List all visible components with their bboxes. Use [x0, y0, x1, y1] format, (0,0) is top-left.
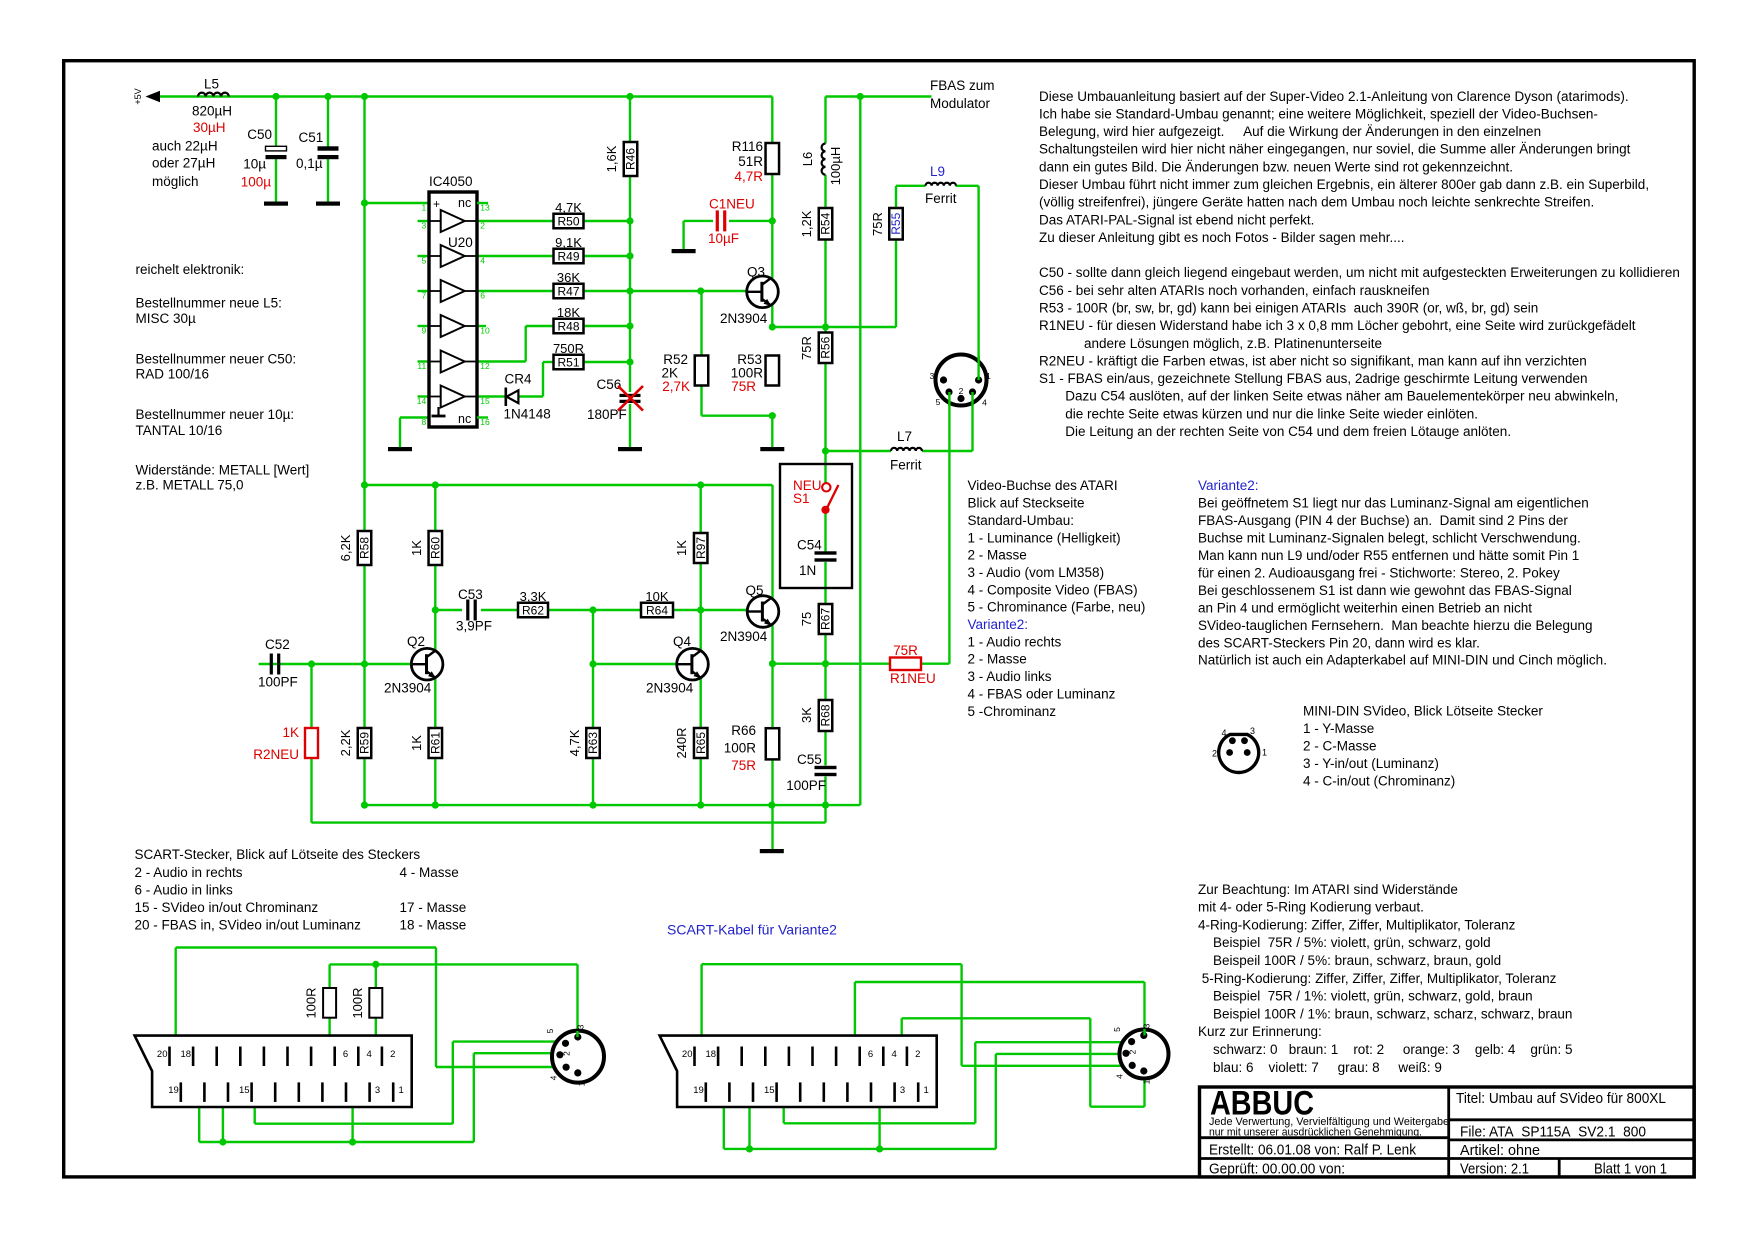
- svg-text:MISC 30µ: MISC 30µ: [136, 311, 197, 326]
- svg-text:2 - Masse: 2 - Masse: [968, 548, 1027, 563]
- svg-text:1 - Audio rechts: 1 - Audio rechts: [968, 634, 1062, 649]
- svg-text:6: 6: [868, 1049, 873, 1060]
- svg-text:C52: C52: [265, 637, 290, 652]
- svg-text:Standard-Umbau:: Standard-Umbau:: [968, 513, 1075, 528]
- svg-text:19: 19: [168, 1085, 179, 1096]
- svg-text:S1: S1: [793, 491, 810, 506]
- svg-text:240R: 240R: [674, 727, 689, 758]
- svg-text:5: 5: [936, 397, 941, 407]
- svg-text:Beispiel 75R / 1%: violett, g: Beispiel 75R / 1%: violett, grün, schwar…: [1198, 989, 1533, 1004]
- svg-text:11: 11: [417, 361, 426, 371]
- svg-text:1: 1: [399, 1085, 404, 1096]
- svg-text:R116: R116: [732, 139, 763, 154]
- svg-text:Beispiel 75R / 5%: violett, g: Beispiel 75R / 5%: violett, grün, schwar…: [1198, 935, 1491, 950]
- svg-text:C1NEU: C1NEU: [709, 197, 755, 212]
- svg-text:2N3904: 2N3904: [646, 681, 694, 696]
- svg-text:Ich habe sie Standard-Umbau ge: Ich habe sie Standard-Umbau genannt; ein…: [1039, 106, 1598, 121]
- svg-text:2: 2: [1128, 1049, 1138, 1054]
- svg-text:R67: R67: [819, 608, 833, 630]
- svg-text:5: 5: [421, 256, 426, 266]
- svg-text:10µF: 10µF: [708, 231, 739, 246]
- svg-text:1: 1: [1142, 1079, 1152, 1084]
- svg-text:Dieser Umbau führt nicht immer: Dieser Umbau führt nicht immer zum gleic…: [1039, 177, 1649, 192]
- svg-text:4,7R: 4,7R: [734, 169, 763, 184]
- svg-text:4: 4: [549, 1075, 559, 1080]
- svg-text:R47: R47: [557, 284, 579, 298]
- svg-text:R53 - 100R (br, sw, br, gd) ka: R53 - 100R (br, sw, br, gd) kann bei ein…: [1039, 300, 1538, 315]
- svg-text:20 - FBAS in, SVideo in/out Lu: 20 - FBAS in, SVideo in/out Luminanz: [135, 918, 362, 933]
- svg-text:Bestellnummer neuer C50:: Bestellnummer neuer C50:: [136, 351, 297, 366]
- svg-text:Beispeil 100R / 5%: braun, sch: Beispeil 100R / 5%: braun, schwarz, brau…: [1198, 953, 1501, 968]
- svg-text:1 - Y-Masse: 1 - Y-Masse: [1303, 721, 1374, 736]
- svg-text:Zu dieser Anleitung gibt es no: Zu dieser Anleitung gibt es noch Fotos -…: [1039, 230, 1404, 245]
- svg-text:5: 5: [545, 1028, 555, 1033]
- svg-text:Bei geschlossenem S1 ist dann: Bei geschlossenem S1 ist dann wie gewohn…: [1198, 583, 1572, 598]
- svg-text:R48: R48: [557, 319, 579, 333]
- svg-text:2,7K: 2,7K: [662, 379, 690, 394]
- svg-text:4 - C-in/out (Chrominanz): 4 - C-in/out (Chrominanz): [1303, 773, 1455, 788]
- svg-text:Ferrit: Ferrit: [890, 458, 922, 473]
- svg-text:3: 3: [1250, 726, 1255, 736]
- svg-text:Version: 2.1: Version: 2.1: [1460, 1162, 1529, 1178]
- svg-text:5-Ring-Kodierung: Ziffer, Ziff: 5-Ring-Kodierung: Ziffer, Ziffer, Ziffer…: [1198, 971, 1557, 986]
- svg-text:C54: C54: [797, 538, 822, 553]
- svg-text:MINI-DIN SVideo, Blick Lötseit: MINI-DIN SVideo, Blick Lötseite Stecker: [1303, 703, 1543, 718]
- svg-text:Bestellnummer neuer 10µ:: Bestellnummer neuer 10µ:: [136, 407, 295, 422]
- svg-text:4: 4: [892, 1049, 897, 1060]
- svg-text:36K: 36K: [557, 270, 580, 285]
- svg-text:L6: L6: [800, 152, 815, 166]
- svg-text:100PF: 100PF: [786, 778, 826, 793]
- svg-text:C53: C53: [458, 587, 483, 602]
- svg-text:z.B. METALL 75,0: z.B. METALL 75,0: [136, 478, 244, 493]
- svg-text:19: 19: [693, 1085, 704, 1096]
- svg-text:SVideo-tauglichen Fernsehern.: SVideo-tauglichen Fernsehern. Man beacht…: [1198, 618, 1593, 633]
- svg-text:oder 27µH: oder 27µH: [152, 156, 215, 171]
- svg-text:R65: R65: [694, 732, 708, 754]
- svg-text:5 -Chrominanz: 5 -Chrominanz: [968, 704, 1057, 719]
- svg-text:R66: R66: [731, 723, 756, 738]
- svg-text:Variante2:: Variante2:: [968, 617, 1029, 632]
- svg-text:100µH: 100µH: [828, 147, 843, 186]
- svg-text:4 - FBAS oder Luminanz: 4 - FBAS oder Luminanz: [968, 686, 1116, 701]
- svg-text:1K: 1K: [674, 540, 689, 556]
- svg-text:Q2: Q2: [407, 634, 425, 649]
- svg-text:75R: 75R: [799, 336, 814, 360]
- svg-text:75R: 75R: [870, 212, 885, 236]
- svg-text:Buchse mit Luminanz-Signalen b: Buchse mit Luminanz-Signalen belegt, sch…: [1198, 531, 1581, 546]
- svg-text:R55: R55: [889, 212, 903, 234]
- svg-text:Die Leitung an der rechten Sei: Die Leitung an der rechten Seite von C54…: [1039, 424, 1511, 439]
- svg-text:2 - Audio in rechts: 2 - Audio in rechts: [135, 865, 243, 880]
- svg-text:6,2K: 6,2K: [338, 534, 353, 561]
- svg-text:1N: 1N: [799, 563, 816, 578]
- svg-text:20: 20: [682, 1049, 693, 1060]
- svg-text:Belegung, wird hier aufgezeigt: Belegung, wird hier aufgezeigt. Auf die …: [1039, 124, 1541, 139]
- svg-text:2: 2: [1212, 749, 1217, 759]
- svg-text:Ferrit: Ferrit: [925, 191, 957, 206]
- svg-text:5 - Chrominance (Farbe, neu): 5 - Chrominance (Farbe, neu): [968, 600, 1146, 615]
- svg-text:Kurz zur Erinnerung:: Kurz zur Erinnerung:: [1198, 1024, 1322, 1039]
- svg-text:820µH: 820µH: [192, 104, 232, 119]
- svg-text:Artikel: ohne: Artikel: ohne: [1460, 1143, 1540, 1159]
- svg-text:2N3904: 2N3904: [384, 681, 432, 696]
- svg-text:2: 2: [480, 221, 485, 231]
- svg-text:1: 1: [1262, 748, 1267, 758]
- svg-text:4 - Composite Video (FBAS): 4 - Composite Video (FBAS): [968, 582, 1138, 597]
- svg-text:IC4050: IC4050: [429, 174, 473, 189]
- svg-text:18: 18: [706, 1049, 717, 1060]
- svg-text:8: 8: [421, 417, 426, 427]
- svg-text:15: 15: [764, 1085, 775, 1096]
- svg-text:6: 6: [343, 1049, 348, 1060]
- svg-text:6 - Audio in links: 6 - Audio in links: [135, 882, 234, 897]
- svg-text:R54: R54: [819, 212, 833, 234]
- svg-text:(völlig streifenfrei), jüngere: (völlig streifenfrei), jüngere Geräte ha…: [1039, 195, 1594, 210]
- svg-text:100R: 100R: [304, 987, 319, 1018]
- svg-text:R63: R63: [586, 732, 600, 754]
- svg-text:Blatt 1 von 1: Blatt 1 von 1: [1594, 1162, 1667, 1178]
- svg-text:1,6K: 1,6K: [604, 145, 619, 172]
- svg-text:Geprüft: 00.00.00 von:: Geprüft: 00.00.00 von:: [1209, 1162, 1345, 1178]
- svg-text:1: 1: [924, 1085, 929, 1096]
- svg-text:1: 1: [577, 1081, 587, 1086]
- svg-text:100µ: 100µ: [241, 175, 272, 190]
- svg-text:Q4: Q4: [673, 634, 692, 649]
- svg-text:3,9PF: 3,9PF: [456, 619, 492, 634]
- svg-text:4-Ring-Kodierung: Ziffer, Ziff: 4-Ring-Kodierung: Ziffer, Ziffer, Multip…: [1198, 917, 1516, 932]
- svg-text:C50: C50: [247, 127, 272, 142]
- svg-text:Man kann nun L9 und/oder R55 e: Man kann nun L9 und/oder R55 entfernen u…: [1198, 548, 1579, 563]
- svg-text:18 - Masse: 18 - Masse: [400, 918, 467, 933]
- svg-text:1K: 1K: [282, 725, 299, 740]
- svg-text:Video-Buchse des ATARI: Video-Buchse des ATARI: [968, 478, 1118, 493]
- svg-text:nur mit unserer ausdrücklichen: nur mit unserer ausdrücklichen Genehmigu…: [1209, 1126, 1422, 1138]
- svg-text:6: 6: [480, 291, 485, 301]
- svg-text:Q3: Q3: [747, 265, 765, 280]
- svg-text:C51: C51: [299, 130, 324, 145]
- svg-text:13: 13: [480, 203, 490, 213]
- svg-text:L9: L9: [930, 164, 945, 179]
- svg-text:andere Lösungen möglich, z.B.: andere Lösungen möglich, z.B. Platinenun…: [1039, 336, 1382, 351]
- svg-text:Erstellt: 06.01.08 von: Ralf P: Erstellt: 06.01.08 von: Ralf P. Lenk: [1209, 1142, 1417, 1158]
- svg-text:1,2K: 1,2K: [799, 210, 814, 237]
- svg-text:10K: 10K: [645, 589, 668, 604]
- svg-text:1: 1: [986, 371, 991, 381]
- svg-text:RAD 100/16: RAD 100/16: [136, 367, 210, 382]
- svg-text:CR4: CR4: [505, 372, 532, 387]
- svg-text:R97: R97: [694, 537, 708, 559]
- svg-text:3: 3: [900, 1085, 905, 1096]
- svg-text:dann ein gutes Bild. Die Änder: dann ein gutes Bild. Die Änderungen bzw.…: [1039, 159, 1513, 174]
- svg-text:Schaltungsteilen wird hier nic: Schaltungsteilen wird hier nicht näher e…: [1039, 142, 1631, 157]
- svg-text:möglich: möglich: [152, 174, 199, 189]
- svg-text:2: 2: [390, 1049, 395, 1060]
- svg-text:L5: L5: [204, 77, 219, 92]
- svg-text:3 - Y-in/out (Luminanz): 3 - Y-in/out (Luminanz): [1303, 756, 1439, 771]
- svg-text:für einen 2. Audioausgang frei: für einen 2. Audioausgang frei - Stichwo…: [1198, 565, 1560, 580]
- svg-text:auch 22µH: auch 22µH: [152, 139, 218, 154]
- svg-text:75R: 75R: [893, 643, 918, 658]
- svg-text:3 - Audio links: 3 - Audio links: [968, 669, 1052, 684]
- svg-text:3: 3: [576, 1024, 586, 1029]
- svg-text:4: 4: [480, 256, 485, 266]
- svg-text:4: 4: [367, 1049, 372, 1060]
- svg-text:nc: nc: [458, 196, 471, 210]
- svg-text:20: 20: [157, 1049, 168, 1060]
- svg-text:1K: 1K: [409, 540, 424, 556]
- svg-text:R56: R56: [819, 336, 833, 358]
- svg-text:18K: 18K: [557, 305, 580, 320]
- svg-text:C50 - sollte dann gleich liege: C50 - sollte dann gleich liegend eingeba…: [1039, 265, 1680, 280]
- svg-text:1 - Luminance (Helligkeit): 1 - Luminance (Helligkeit): [968, 530, 1121, 545]
- svg-text:75: 75: [799, 612, 814, 626]
- svg-text:4 - Masse: 4 - Masse: [400, 865, 459, 880]
- svg-text:die rechte Seite etwas kürzen: die rechte Seite etwas kürzen und nur di…: [1039, 406, 1478, 421]
- svg-text:3 - Audio (vom LM358): 3 - Audio (vom LM358): [968, 565, 1105, 580]
- svg-text:Widerstände: METALL [Wert]: Widerstände: METALL [Wert]: [136, 462, 310, 477]
- svg-text:Q5: Q5: [746, 583, 764, 598]
- svg-text:U20: U20: [448, 235, 473, 250]
- svg-text:schwarz: 0 braun: 1 rot:: schwarz: 0 braun: 1 rot: 2 orange: 3 gel…: [1198, 1042, 1572, 1057]
- svg-text:R2NEU - kräftigt die Farben et: R2NEU - kräftigt die Farben etwas, ist a…: [1039, 353, 1587, 368]
- svg-text:R1NEU: R1NEU: [890, 671, 936, 686]
- svg-text:750R: 750R: [553, 341, 584, 356]
- svg-text:R49: R49: [557, 249, 579, 263]
- svg-text:2: 2: [915, 1049, 920, 1060]
- svg-text:File: ATA_SP115A_SV2.1_800: File: ATA_SP115A_SV2.1_800: [1460, 1125, 1646, 1141]
- svg-text:2N3904: 2N3904: [720, 629, 768, 644]
- svg-text:0,1µ: 0,1µ: [296, 156, 323, 171]
- svg-text:2N3904: 2N3904: [720, 311, 768, 326]
- svg-text:R61: R61: [429, 732, 443, 754]
- svg-text:4: 4: [1115, 1074, 1125, 1079]
- svg-text:9: 9: [421, 326, 426, 336]
- svg-text:FBAS zum: FBAS zum: [930, 78, 995, 93]
- svg-text:Dazu C54 auslöten, auf der lin: Dazu C54 auslöten, auf der linken Seite …: [1039, 389, 1618, 404]
- svg-text:10: 10: [480, 326, 490, 336]
- svg-text:15: 15: [480, 396, 490, 406]
- svg-text:3: 3: [930, 371, 935, 381]
- svg-text:S1 - FBAS ein/aus, gezeichnete: S1 - FBAS ein/aus, gezeichnete Stellung …: [1039, 371, 1588, 386]
- svg-text:R50: R50: [557, 214, 579, 228]
- svg-text:5: 5: [1112, 1027, 1122, 1032]
- svg-text:9,1K: 9,1K: [555, 235, 582, 250]
- svg-text:L7: L7: [897, 429, 912, 444]
- svg-text:15 - SVideo in/out Chrominanz: 15 - SVideo in/out Chrominanz: [135, 900, 319, 915]
- svg-text:10µ: 10µ: [243, 157, 266, 172]
- svg-text:4,7K: 4,7K: [567, 729, 582, 756]
- svg-text:TANTAL 10/16: TANTAL 10/16: [136, 423, 223, 438]
- svg-text:SCART-Kabel für Variante2: SCART-Kabel für Variante2: [667, 922, 837, 938]
- svg-text:Modulator: Modulator: [930, 96, 991, 111]
- svg-text:1K: 1K: [409, 735, 424, 751]
- svg-text:75R: 75R: [731, 379, 756, 394]
- svg-text:15: 15: [239, 1085, 250, 1096]
- svg-text:C56: C56: [597, 377, 622, 392]
- svg-text:C55: C55: [797, 752, 822, 767]
- svg-text:mit 4- oder 5-Ring Kodierung v: mit 4- oder 5-Ring Kodierung verbaut.: [1198, 900, 1424, 915]
- svg-text:R62: R62: [522, 603, 544, 617]
- svg-text:12: 12: [480, 361, 490, 371]
- svg-text:18: 18: [181, 1049, 192, 1060]
- svg-text:3: 3: [375, 1085, 380, 1096]
- svg-text:an Pin 4 und ermöglicht weiter: an Pin 4 und ermöglicht weiterhin einen …: [1198, 600, 1532, 615]
- svg-text:4,7K: 4,7K: [555, 200, 582, 215]
- svg-text:R60: R60: [429, 537, 443, 559]
- svg-text:30µH: 30µH: [193, 120, 226, 135]
- svg-text:100PF: 100PF: [258, 675, 298, 690]
- svg-text:+: +: [433, 197, 440, 211]
- svg-text:FBAS-Ausgang (PIN 4 der Buchse: FBAS-Ausgang (PIN 4 der Buchse) an. Dami…: [1198, 513, 1568, 528]
- svg-text:Bei geöffnetem S1 liegt nur da: Bei geöffnetem S1 liegt nur das Luminanz…: [1198, 496, 1589, 511]
- svg-text:C56 - bei sehr alten ATARIs no: C56 - bei sehr alten ATARIs noch vorhand…: [1039, 283, 1429, 298]
- svg-text:3K: 3K: [799, 707, 814, 723]
- svg-text:51R: 51R: [738, 154, 763, 169]
- svg-text:Das ATARI-PAL-Signal ist ebend: Das ATARI-PAL-Signal ist ebend nicht per…: [1039, 212, 1314, 227]
- svg-text:3,3K: 3,3K: [520, 589, 547, 604]
- svg-text:R2NEU: R2NEU: [253, 747, 299, 762]
- svg-text:75R: 75R: [731, 758, 756, 773]
- svg-text:7: 7: [421, 291, 426, 301]
- svg-text:des SCART-Steckers Pin 20, dan: des SCART-Steckers Pin 20, dann wird es …: [1198, 635, 1480, 650]
- svg-text:14: 14: [417, 396, 427, 406]
- svg-text:Bestellnummer neue L5:: Bestellnummer neue L5:: [136, 296, 282, 311]
- svg-text:SCART-Stecker, Blick auf Lötse: SCART-Stecker, Blick auf Lötseite des St…: [135, 847, 421, 862]
- svg-text:2: 2: [959, 386, 964, 396]
- svg-text:3: 3: [1142, 1023, 1152, 1028]
- svg-text:3: 3: [421, 221, 426, 231]
- svg-text:16: 16: [480, 417, 490, 427]
- svg-text:100R: 100R: [350, 987, 365, 1018]
- svg-text:+5V: +5V: [133, 88, 143, 104]
- svg-text:Blick auf Steckseite: Blick auf Steckseite: [968, 496, 1085, 511]
- svg-text:2 - C-Masse: 2 - C-Masse: [1303, 738, 1377, 753]
- svg-text:2: 2: [562, 1051, 572, 1056]
- svg-text:17 - Masse: 17 - Masse: [400, 900, 467, 915]
- svg-text:100R: 100R: [724, 741, 757, 756]
- svg-text:reichelt elektronik:: reichelt elektronik:: [136, 262, 245, 277]
- svg-text:2,2K: 2,2K: [338, 729, 353, 756]
- svg-text:R1NEU - für diesen Widerstand: R1NEU - für diesen Widerstand habe ich 3…: [1039, 318, 1636, 333]
- svg-text:blau: 6 violett: 7 grau: blau: 6 violett: 7 grau: 8 weiß: 9: [1198, 1060, 1442, 1075]
- svg-text:Titel: Umbau auf SVideo für 80: Titel: Umbau auf SVideo für 800XL: [1456, 1091, 1666, 1107]
- svg-text:4: 4: [1221, 728, 1226, 738]
- svg-text:1: 1: [421, 203, 426, 213]
- svg-text:Diese Umbauanleitung basiert a: Diese Umbauanleitung basiert auf der Sup…: [1039, 89, 1629, 104]
- svg-text:Zur Beachtung: Im ATARI sind W: Zur Beachtung: Im ATARI sind Widerstände: [1198, 882, 1458, 897]
- svg-text:R59: R59: [358, 732, 372, 754]
- svg-text:R46: R46: [624, 148, 638, 170]
- svg-text:R58: R58: [358, 537, 372, 559]
- svg-text:4: 4: [982, 398, 987, 408]
- svg-text:R51: R51: [557, 355, 579, 369]
- svg-text:Beispiel 100R / 1%: braun, sch: Beispiel 100R / 1%: braun, schwarz, scha…: [1198, 1006, 1572, 1021]
- svg-text:R68: R68: [819, 704, 833, 726]
- svg-text:nc: nc: [458, 412, 471, 426]
- svg-text:Natürlich ist auch ein Adapter: Natürlich ist auch ein Adapterkabel auf …: [1198, 653, 1607, 668]
- svg-text:Variante2:: Variante2:: [1198, 478, 1259, 493]
- svg-text:2 - Masse: 2 - Masse: [968, 652, 1027, 667]
- svg-text:R64: R64: [646, 603, 668, 617]
- svg-text:1N4148: 1N4148: [504, 407, 551, 422]
